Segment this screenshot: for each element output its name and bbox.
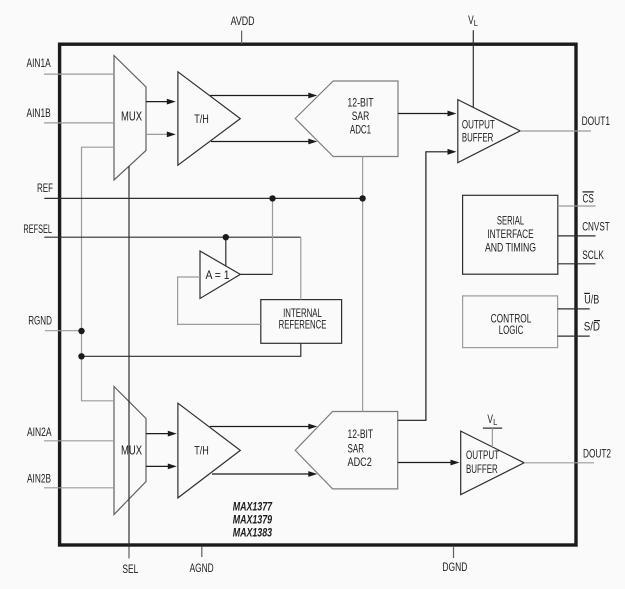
svg-text:12-BIT: 12-BIT (347, 96, 374, 110)
svg-text:OUTPUT: OUTPUT (466, 448, 500, 462)
svg-text:BUFFER: BUFFER (466, 462, 498, 476)
svg-text:SCLK: SCLK (582, 250, 604, 262)
svg-text:REFSEL: REFSEL (23, 224, 52, 236)
svg-text:CNVST: CNVST (582, 222, 610, 234)
svg-text:L: L (474, 18, 478, 28)
svg-text:DGND: DGND (442, 562, 467, 574)
svg-text:T/H: T/H (194, 443, 209, 457)
svg-text:L: L (493, 417, 497, 427)
svg-text:MAX1379: MAX1379 (233, 514, 273, 526)
svg-text:OUTPUT: OUTPUT (462, 117, 495, 131)
svg-text:SERIAL: SERIAL (497, 213, 524, 227)
svg-text:INTERFACE: INTERFACE (487, 227, 533, 241)
svg-text:AIN1B: AIN1B (27, 108, 51, 120)
svg-text:MUX: MUX (121, 108, 142, 123)
svg-text:CS: CS (583, 193, 595, 205)
svg-text:MAX1383: MAX1383 (233, 527, 273, 539)
svg-text:T/H: T/H (194, 112, 209, 126)
svg-text:AIN1A: AIN1A (27, 58, 51, 70)
svg-text:SEL: SEL (122, 564, 138, 576)
svg-text:DOUT1: DOUT1 (582, 116, 610, 128)
svg-text:SAR: SAR (348, 442, 365, 456)
svg-text:BUFFER: BUFFER (462, 130, 494, 144)
svg-text:AIN2A: AIN2A (27, 427, 52, 439)
svg-text:MUX: MUX (121, 442, 142, 457)
svg-text:U/B: U/B (584, 295, 599, 307)
svg-text:AIN2B: AIN2B (27, 473, 51, 485)
svg-text:AVDD: AVDD (231, 16, 255, 28)
svg-text:SAR: SAR (352, 109, 370, 123)
svg-text:ADC2: ADC2 (348, 455, 373, 469)
svg-text:AGND: AGND (190, 563, 214, 575)
svg-text:REFERENCE: REFERENCE (279, 318, 327, 332)
svg-text:12-BIT: 12-BIT (348, 427, 374, 441)
svg-text:S/D: S/D (584, 322, 600, 334)
svg-text:RGND: RGND (28, 316, 52, 328)
svg-text:LOGIC: LOGIC (499, 323, 524, 337)
svg-text:AND TIMING: AND TIMING (485, 241, 536, 255)
svg-text:ADC1: ADC1 (350, 122, 371, 136)
svg-text:DOUT2: DOUT2 (583, 449, 611, 461)
svg-text:REF: REF (37, 183, 53, 195)
svg-text:MAX1377: MAX1377 (233, 501, 273, 513)
svg-text:A = 1: A = 1 (206, 270, 230, 282)
